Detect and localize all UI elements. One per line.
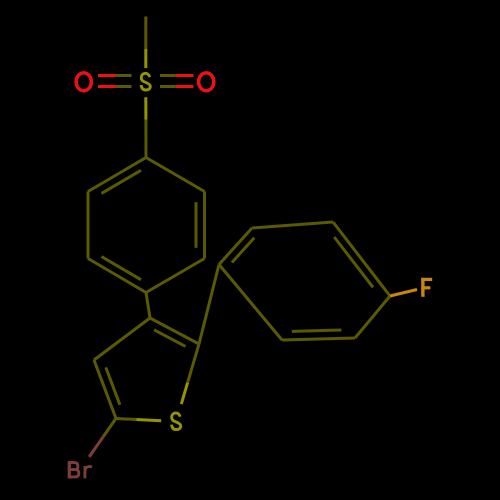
thiophene bond C2'-S	[181, 344, 199, 404]
bond C5'-Br	[89, 419, 116, 457]
thiophene bond C4'-C3'	[94, 318, 150, 360]
bond C2'-C1'' (thiophene to ring B)	[199, 265, 219, 345]
ring B inner double C3''=C4''	[334, 237, 373, 287]
atom label F	[421, 278, 432, 297]
bond C4-C3' (ring A to thiophene)	[146, 293, 150, 319]
ring B bond C3''-C4''	[333, 222, 390, 296]
ring B bond C1''-C2''	[219, 228, 252, 265]
ring B bond C4''-C5''	[355, 296, 390, 338]
thiophene bond C5'-C4'	[94, 360, 116, 419]
ring A bond C1-C2	[146, 158, 205, 192]
double bond S=O right	[160, 76, 194, 87]
ring B bond C5''-C6''	[282, 338, 355, 340]
ring B inner double C5''=C6''	[292, 330, 342, 331]
ring B bond C2''-C3''	[252, 222, 333, 228]
ring B inner double C1''=C2''	[232, 238, 254, 263]
ring A bond C4-C5	[88, 259, 146, 293]
ring A bond C2-C3	[203, 192, 206, 259]
ring A bond C3-C4	[146, 259, 205, 293]
thiophene bond S-C5'	[116, 419, 161, 421]
thiophene inner double C4'=C5'	[106, 367, 120, 404]
atom label S (thiophene)	[172, 413, 181, 430]
thiophene bond C3'-C2'	[150, 318, 199, 344]
atom label O (left)	[76, 73, 91, 91]
bond S-C1 (to ring A)	[144, 97, 147, 157]
ring A inner double C6=C1	[102, 170, 142, 193]
ring A inner double C4=C5	[102, 257, 142, 280]
ring B bond C6''-C1''	[219, 265, 282, 341]
ring A bond C5-C6	[87, 192, 90, 259]
atom label Br	[68, 461, 92, 478]
bond C4''-F	[390, 290, 417, 297]
thiophene inner double C2'=C3'	[154, 330, 185, 347]
atom label O (right)	[199, 73, 214, 91]
ring A bond C6-C1	[88, 158, 146, 192]
atom label S (sulfonyl)	[141, 73, 150, 90]
ring A inner double C2=C3	[195, 202, 198, 248]
bond CH3-S (methyl)	[144, 17, 147, 69]
double bond S=O left	[98, 76, 132, 87]
